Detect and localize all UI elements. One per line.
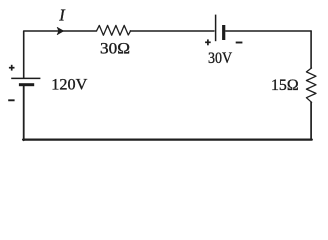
wire: top horizontal from R1 to battery V2 [130,30,214,32]
minus polarity mark of V2 [236,42,243,44]
wire: right vertical upper from corner to R2 [310,31,312,68]
wire: right vertical lower from R2 to bottom-right corner [310,102,312,139]
svg-text:30Ω: 30Ω [100,40,130,57]
resistor R1 (30 ohm) zigzag [97,25,131,35]
battery V2 short negative plate [222,25,225,40]
plus polarity mark of V1 [9,65,15,71]
resistor R2 (15 ohm) vertical zigzag [306,68,316,102]
svg-text:120V: 120V [51,77,87,94]
svg-text:15Ω: 15Ω [271,77,299,94]
svg-text:30V: 30V [208,50,233,67]
wire: top horizontal from battery V2 to top-right corner [226,30,311,32]
battery V2 long positive plate [215,15,217,42]
current arrow I on top-left wire [57,27,64,35]
svg-text:I: I [58,5,66,24]
plus polarity mark of V2 [205,39,211,45]
minus polarity mark of V1 [8,99,14,101]
battery V1 short negative plate [19,83,34,86]
wire: left vertical lower from bottom-left corner up to battery V1 [23,86,25,141]
battery V1 long positive plate [11,77,40,79]
wire: left vertical upper + top-left corner + top horizontal to R1 [24,31,97,78]
wire: bottom horizontal [23,139,312,141]
